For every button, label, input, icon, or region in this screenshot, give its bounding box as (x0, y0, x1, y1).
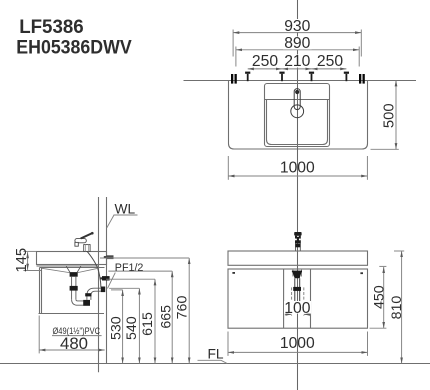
svg-text:WL: WL (115, 202, 136, 217)
svg-text:1000: 1000 (280, 160, 315, 177)
svg-text:EH05386DWV: EH05386DWV (16, 36, 131, 58)
svg-text:530: 530 (109, 316, 125, 340)
svg-text:810: 810 (389, 296, 405, 320)
svg-text:PF1/2: PF1/2 (115, 262, 144, 274)
svg-text:480: 480 (60, 334, 88, 353)
svg-text:890: 890 (284, 35, 310, 52)
svg-text:450: 450 (372, 285, 388, 309)
svg-text:LF5386: LF5386 (19, 16, 84, 38)
svg-text:665: 665 (159, 305, 175, 329)
svg-text:615: 615 (140, 312, 156, 336)
svg-text:Ø49(1½")PVC: Ø49(1½")PVC (53, 326, 101, 336)
svg-text:FL: FL (208, 347, 224, 362)
svg-text:540: 540 (124, 316, 140, 340)
svg-text:250: 250 (252, 53, 278, 70)
svg-text:760: 760 (174, 296, 190, 320)
svg-text:1000: 1000 (280, 335, 315, 352)
svg-text:930: 930 (284, 18, 310, 35)
svg-text:500: 500 (382, 103, 398, 128)
svg-text:210: 210 (284, 53, 310, 70)
svg-text:250: 250 (317, 53, 343, 70)
svg-text:100: 100 (284, 300, 310, 317)
svg-text:145: 145 (14, 248, 30, 273)
